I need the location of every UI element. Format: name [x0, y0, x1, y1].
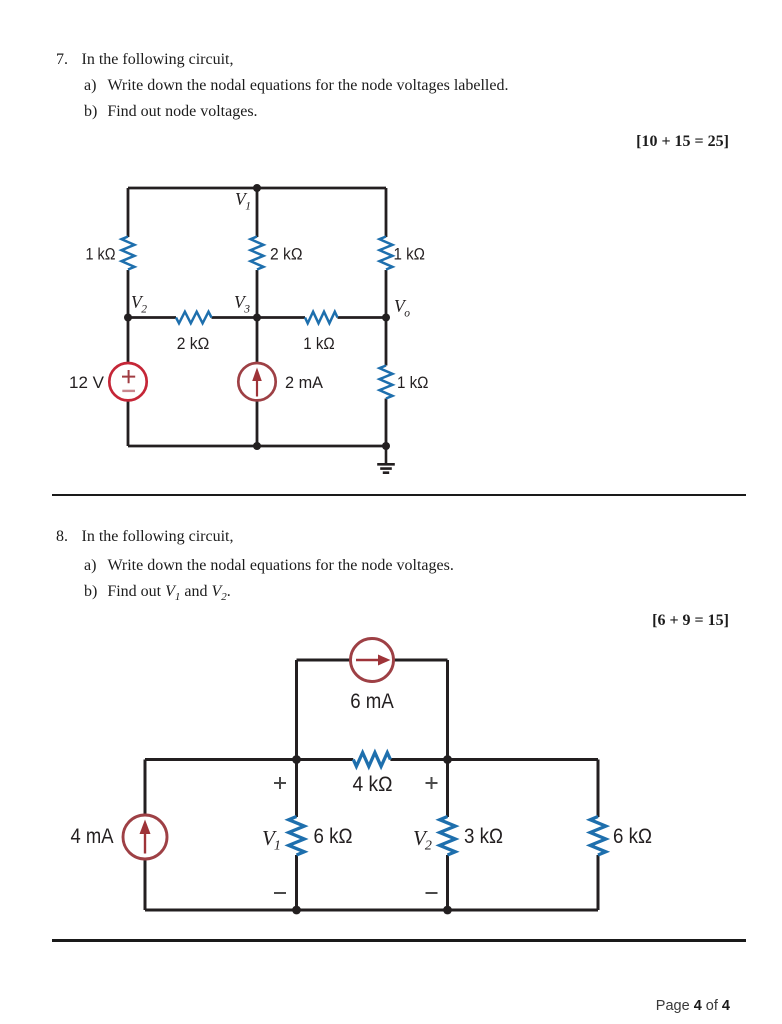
- horizontal divider line 2: [52, 939, 746, 942]
- question 8b: [84, 583, 231, 603]
- marks 8: [652, 612, 729, 630]
- wire: circuit2 bottom rail: [145, 909, 598, 912]
- node dot bottom right: [382, 442, 390, 450]
- svg-text:4 kΩ: 4 kΩ: [353, 772, 393, 796]
- resistor 2 kOhm horizontal V2-V3: [176, 312, 212, 324]
- node dot V1 top: [292, 755, 301, 764]
- node dot V1 bottom: [292, 906, 301, 915]
- node dot V3: [253, 314, 261, 322]
- resistor 1 kOhm horizontal V3-Vo: [305, 312, 338, 324]
- question 8 heading: [56, 528, 233, 546]
- horizontal divider line 1: [52, 494, 746, 497]
- resistor 6 kOhm right branch: [590, 817, 606, 856]
- wire: middle branch vertical segments: [256, 188, 259, 446]
- node dot Vo: [382, 314, 390, 322]
- resistor 1 kOhm right branch top: [380, 237, 393, 270]
- question 8a: [84, 557, 454, 575]
- resistor 6 kOhm V1 branch: [289, 817, 305, 856]
- svg-text:6 kΩ: 6 kΩ: [314, 824, 353, 848]
- svg-text:3 kΩ: 3 kΩ: [464, 824, 503, 848]
- page footer: [656, 998, 730, 1014]
- resistor 3 kOhm V2 branch: [440, 817, 456, 856]
- node dot V2 bottom: [443, 906, 452, 915]
- node dot bottom middle: [253, 442, 261, 450]
- plus sign V2: [426, 777, 438, 789]
- wire: circuit1 top rail: [128, 187, 386, 190]
- wire: circuit2 verticals to top loop: [297, 660, 448, 760]
- wire: circuit2 right branch: [597, 760, 600, 911]
- wire: right branch vertical segments: [385, 188, 388, 446]
- wire: circuit2 middle rail segments: [145, 758, 598, 761]
- current source 2 mA: [238, 363, 275, 400]
- voltage source 12 V: [109, 363, 146, 400]
- wire: circuit1 bottom rail: [128, 445, 386, 448]
- marks 7: [636, 133, 729, 151]
- svg-text:V1: V1: [262, 826, 281, 854]
- svg-text:V2: V2: [413, 826, 432, 854]
- node dot V2 top: [443, 755, 452, 764]
- wire: circuit2 top rail segments: [297, 659, 448, 662]
- resistor 1 kOhm right branch bottom: [380, 366, 393, 399]
- resistor 1 kOhm left branch: [122, 237, 135, 270]
- question 7 heading: [56, 51, 233, 69]
- wire: circuit2 V1 branch: [295, 760, 298, 911]
- current source 4 mA: [123, 815, 167, 859]
- question 7a: [84, 77, 508, 95]
- minus sign V1: [274, 892, 286, 894]
- wire: circuit2 V2 branch: [446, 760, 449, 911]
- svg-text:4 mA: 4 mA: [71, 824, 115, 848]
- question 7b: [84, 103, 258, 121]
- svg-text:6 mA: 6 mA: [350, 689, 394, 713]
- svg-text:6 kΩ: 6 kΩ: [613, 824, 652, 848]
- wire: circuit2 left branch: [144, 760, 147, 911]
- wire: circuit1 middle rail segments: [128, 316, 386, 319]
- node dot V2: [124, 314, 132, 322]
- current source 6 mA: [351, 639, 394, 682]
- resistor 2 kOhm middle branch: [251, 237, 264, 270]
- plus sign V1: [274, 777, 286, 789]
- minus sign V2: [426, 892, 438, 894]
- ground: [377, 446, 395, 473]
- wire: left branch vertical segments: [127, 188, 130, 446]
- resistor 4 kOhm horizontal: [353, 753, 390, 767]
- node dot V1: [253, 184, 261, 192]
